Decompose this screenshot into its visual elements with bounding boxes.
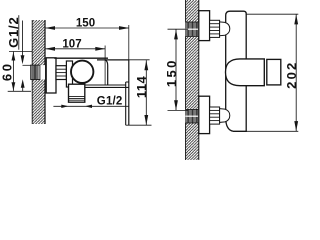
svg-text:60: 60 (0, 61, 14, 81)
svg-text:107: 107 (62, 38, 81, 50)
svg-text:114: 114 (134, 76, 149, 99)
svg-text:150: 150 (76, 18, 95, 30)
svg-text:G1/2: G1/2 (97, 96, 123, 108)
svg-text:202: 202 (284, 61, 299, 89)
svg-text:150: 150 (164, 58, 179, 87)
